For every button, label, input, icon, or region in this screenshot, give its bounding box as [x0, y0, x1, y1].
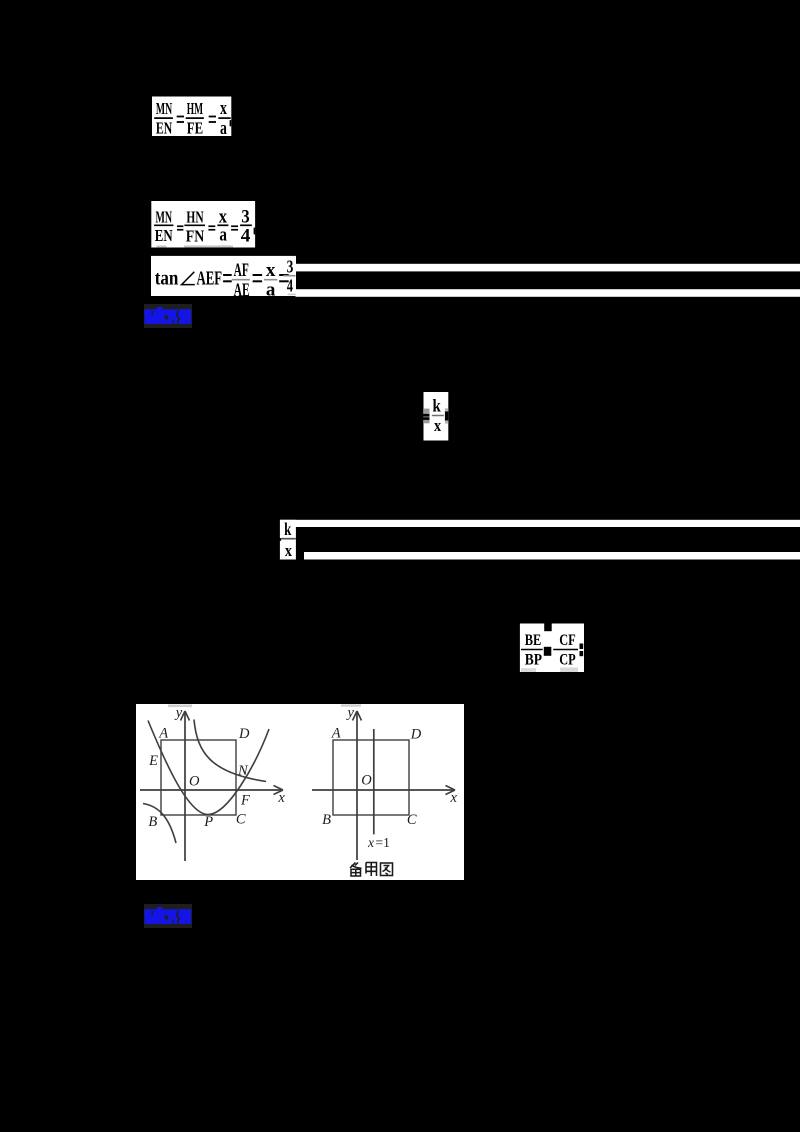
svg-text:a: a: [266, 280, 276, 301]
svg-text:a: a: [220, 119, 227, 139]
svg-text:k: k: [433, 396, 441, 416]
svg-text:4: 4: [241, 226, 251, 247]
svg-text:O: O: [189, 773, 200, 789]
svg-text:O: O: [361, 772, 372, 788]
svg-text:MN: MN: [156, 99, 172, 118]
svg-text:C: C: [407, 812, 417, 828]
svg-text:EN: EN: [156, 119, 172, 138]
svg-text:=1: =1: [376, 835, 390, 850]
svg-text:a: a: [219, 226, 227, 246]
svg-text:y: y: [345, 705, 354, 721]
svg-text:3: 3: [241, 206, 249, 227]
svg-text:4: 4: [287, 275, 293, 295]
svg-text:k: k: [284, 519, 291, 539]
svg-text:HN: HN: [186, 207, 203, 226]
svg-text:tan: tan: [155, 267, 179, 289]
svg-text:x: x: [220, 99, 227, 119]
svg-text:D: D: [410, 727, 422, 743]
svg-text:BE: BE: [525, 632, 542, 649]
svg-text:BP: BP: [525, 652, 542, 669]
svg-text:P: P: [203, 814, 213, 830]
svg-text:x: x: [285, 541, 293, 560]
svg-text:AE: AE: [234, 281, 250, 301]
svg-text:N: N: [237, 763, 249, 779]
svg-text:MN: MN: [156, 207, 173, 226]
svg-text:x: x: [266, 260, 276, 281]
svg-text:x: x: [449, 790, 457, 806]
svg-text:x: x: [367, 835, 374, 850]
svg-text:FE: FE: [187, 119, 203, 138]
svg-text:D: D: [238, 726, 250, 742]
svg-text:x: x: [434, 416, 442, 435]
svg-text:3: 3: [287, 256, 294, 276]
svg-text:A: A: [158, 726, 168, 742]
svg-text:CF: CF: [559, 632, 576, 649]
svg-text:HM: HM: [187, 99, 204, 118]
svg-text:E: E: [148, 753, 158, 769]
svg-text:x: x: [277, 790, 285, 806]
svg-text:EN: EN: [155, 226, 173, 245]
svg-text:B: B: [148, 814, 157, 830]
svg-text:y: y: [174, 705, 183, 721]
svg-text:x: x: [219, 207, 228, 227]
svg-text:AF: AF: [234, 261, 249, 281]
svg-text:FN: FN: [186, 227, 205, 246]
svg-text:B: B: [322, 812, 331, 828]
svg-text:C: C: [236, 812, 246, 828]
svg-text:A: A: [331, 726, 341, 742]
svg-text:CP: CP: [559, 652, 576, 669]
svg-text:F: F: [240, 793, 250, 809]
svg-text:AEF: AEF: [197, 268, 223, 289]
